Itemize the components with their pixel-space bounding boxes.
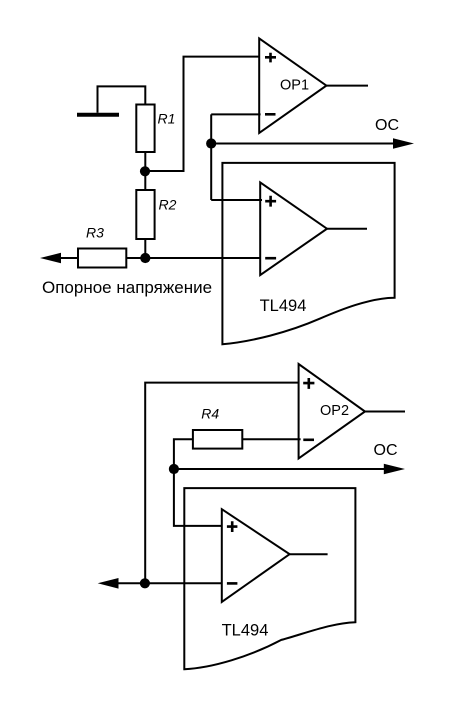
resistor R2 — [136, 190, 154, 239]
OP1 minus pin mark — [265, 113, 276, 116]
wire TL494 bottom minus input — [114, 582, 222, 584]
op-amp OP2 — [299, 364, 365, 458]
wire TL494 top output — [327, 228, 367, 230]
arrow right OC bottom — [384, 464, 405, 475]
wire arrow shaft to R3 — [58, 257, 78, 259]
wire R2 bottom to R3 junction — [144, 239, 146, 258]
node junction dot (R4 feedback) — [169, 464, 179, 474]
op-amp inside TL494 top — [260, 182, 327, 275]
svg-text:R4: R4 — [201, 406, 219, 422]
svg-text:TL494: TL494 — [222, 622, 269, 640]
resistor R3 — [78, 249, 126, 268]
TL494 bottom op-amp plus pin mark — [227, 521, 238, 532]
wire vertical OP1 minus to TL494 plus — [210, 114, 212, 200]
wire TL494 bottom output — [290, 553, 328, 555]
node junction dot (bottom) — [140, 578, 150, 588]
TL494 box top — [222, 163, 394, 344]
node junction dot (feedback) — [206, 138, 216, 148]
resistor R1 — [136, 105, 154, 153]
node junction dot (R2/R3) — [140, 253, 150, 263]
svg-text:OP1: OP1 — [280, 78, 309, 94]
svg-text:R3: R3 — [86, 224, 104, 240]
wire junction to OP1 plus input — [145, 57, 261, 171]
svg-text:R2: R2 — [159, 197, 177, 213]
wire OP2 output — [365, 411, 405, 413]
svg-text:R1: R1 — [158, 110, 176, 126]
op-amp OP1 — [259, 38, 326, 133]
arrow right OC top — [393, 138, 414, 149]
ground — [77, 113, 119, 117]
wire OP1 output — [326, 85, 368, 87]
OP2 minus pin mark — [303, 438, 314, 441]
resistor R4 — [193, 430, 242, 449]
wire OC line bottom — [174, 468, 385, 470]
wire R4 left down to TL494 plus — [174, 439, 223, 526]
wire vertical to OP2 plus — [145, 383, 300, 584]
wire R1 bottom to R2 top — [144, 152, 146, 190]
arrow left (reference voltage) — [40, 253, 61, 263]
op-amp inside TL494 bottom — [222, 509, 290, 602]
wire OC line top — [211, 143, 394, 145]
TL494 box bottom — [184, 488, 355, 669]
wire R4 to OP2 minus input — [242, 438, 300, 440]
svg-text:Опорное напряжение: Опорное напряжение — [42, 278, 212, 297]
TL494 top op-amp plus pin mark — [265, 196, 276, 207]
wire TL494 top plus input — [211, 199, 262, 201]
node junction dot (R1/R2) — [140, 166, 150, 176]
OP2 plus pin mark — [303, 378, 314, 389]
svg-text:ОС: ОС — [375, 117, 399, 134]
TL494 bottom op-amp minus pin mark — [227, 582, 238, 585]
wire R3 to TL494 minus input — [126, 257, 262, 259]
TL494 top op-amp minus pin mark — [265, 257, 276, 260]
svg-text:OP2: OP2 — [320, 403, 349, 419]
svg-text:ОС: ОС — [374, 442, 398, 459]
OP1 plus pin mark — [265, 53, 276, 63]
wire ground to R1 top — [98, 86, 146, 112]
wire OP1 minus input — [211, 113, 260, 115]
svg-text:TL494: TL494 — [260, 297, 307, 315]
arrow left bottom — [98, 578, 119, 589]
